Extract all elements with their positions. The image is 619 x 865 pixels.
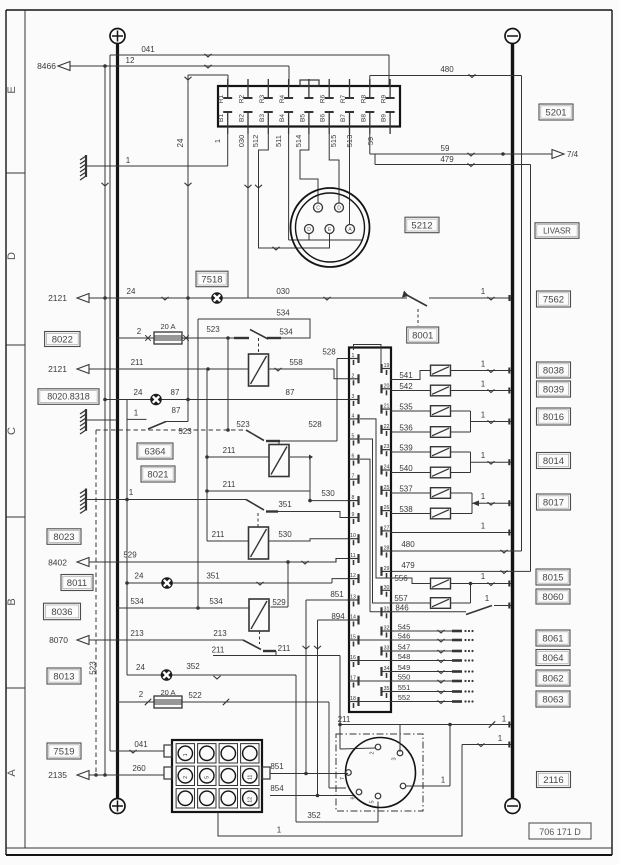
svg-text:211: 211	[223, 446, 236, 455]
svg-text:R6: R6	[320, 94, 327, 103]
svg-text:213: 213	[130, 629, 144, 638]
svg-text:515: 515	[329, 135, 338, 148]
svg-text:8039: 8039	[543, 384, 564, 395]
svg-text:1: 1	[183, 753, 189, 756]
svg-text:1: 1	[126, 156, 131, 165]
svg-text:7518: 7518	[201, 274, 222, 285]
svg-text:511: 511	[274, 135, 283, 147]
svg-text:541: 541	[399, 371, 413, 380]
svg-text:523: 523	[89, 661, 98, 675]
svg-text:1: 1	[481, 287, 486, 296]
svg-text:B2: B2	[239, 114, 246, 122]
svg-text:2: 2	[137, 327, 142, 336]
svg-text:8014: 8014	[543, 456, 564, 467]
svg-text:R4: R4	[279, 94, 286, 103]
svg-text:479: 479	[401, 561, 415, 570]
svg-text:211: 211	[212, 646, 225, 655]
svg-text:535: 535	[399, 403, 413, 412]
svg-text:854: 854	[270, 784, 284, 793]
svg-text:1: 1	[481, 522, 486, 531]
svg-text:6: 6	[351, 796, 357, 799]
svg-text:030: 030	[276, 287, 290, 296]
svg-text:538: 538	[399, 505, 413, 514]
svg-text:5: 5	[370, 800, 376, 803]
svg-text:041: 041	[141, 45, 155, 54]
svg-text:13: 13	[350, 595, 356, 601]
svg-text:706 171 D: 706 171 D	[539, 827, 581, 837]
svg-text:534: 534	[209, 597, 223, 606]
svg-text:041: 041	[134, 740, 148, 749]
svg-text:1: 1	[481, 451, 486, 460]
svg-text:8011: 8011	[67, 578, 87, 589]
svg-text:8063: 8063	[542, 694, 563, 705]
svg-text:17: 17	[350, 676, 356, 682]
svg-text:479: 479	[440, 155, 454, 164]
svg-text:523: 523	[206, 325, 220, 334]
svg-text:LIVASR: LIVASR	[543, 226, 571, 235]
svg-text:8022: 8022	[52, 334, 73, 345]
svg-text:1: 1	[134, 409, 139, 418]
svg-text:B: B	[6, 598, 18, 605]
svg-text:1: 1	[441, 776, 446, 785]
svg-text:211: 211	[223, 480, 236, 489]
svg-text:542: 542	[399, 382, 413, 391]
svg-text:846: 846	[395, 604, 409, 613]
svg-text:B8: B8	[360, 114, 367, 122]
svg-text:545: 545	[398, 623, 411, 632]
svg-text:8060: 8060	[542, 592, 563, 603]
svg-text:8017: 8017	[543, 497, 564, 508]
svg-text:8020.8318: 8020.8318	[47, 392, 90, 402]
svg-text:528: 528	[322, 348, 336, 357]
svg-text:537: 537	[399, 485, 413, 494]
svg-text:87: 87	[286, 388, 295, 397]
svg-text:R8: R8	[360, 94, 367, 103]
svg-text:1: 1	[129, 488, 134, 497]
svg-text:529: 529	[272, 598, 286, 607]
svg-text:211: 211	[278, 644, 291, 653]
svg-text:3: 3	[392, 757, 398, 760]
svg-text:2: 2	[139, 690, 144, 699]
svg-text:R9: R9	[381, 94, 388, 103]
svg-text:512: 512	[251, 135, 260, 148]
svg-text:8070: 8070	[49, 635, 68, 645]
svg-text:522: 522	[188, 691, 202, 700]
svg-text:11: 11	[350, 553, 355, 559]
svg-text:351: 351	[278, 500, 292, 509]
svg-text:15: 15	[350, 635, 356, 641]
svg-text:29: 29	[384, 566, 390, 572]
svg-text:534: 534	[130, 597, 144, 606]
svg-text:23: 23	[384, 444, 390, 450]
svg-text:547: 547	[398, 643, 411, 652]
svg-text:B4: B4	[279, 114, 286, 122]
svg-text:10: 10	[350, 533, 356, 539]
svg-text:480: 480	[401, 540, 415, 549]
svg-text:20: 20	[384, 383, 390, 389]
svg-text:530: 530	[278, 530, 292, 539]
svg-text:A: A	[6, 769, 18, 777]
svg-text:2121: 2121	[48, 364, 67, 374]
svg-text:20 A: 20 A	[160, 688, 175, 697]
svg-text:7519: 7519	[53, 746, 74, 757]
svg-text:7: 7	[352, 474, 355, 480]
svg-text:25: 25	[384, 485, 390, 491]
svg-text:8036: 8036	[51, 607, 72, 618]
svg-text:R7: R7	[340, 94, 347, 103]
svg-text:351: 351	[206, 572, 220, 581]
svg-text:1: 1	[502, 715, 507, 724]
svg-text:548: 548	[398, 652, 411, 661]
svg-text:8013: 8013	[53, 671, 74, 682]
svg-text:352: 352	[186, 662, 200, 671]
svg-text:24: 24	[384, 465, 390, 471]
svg-text:7: 7	[340, 777, 346, 780]
svg-text:8061: 8061	[542, 633, 563, 644]
svg-text:59: 59	[441, 144, 450, 153]
svg-text:20 A: 20 A	[160, 322, 175, 331]
svg-text:8: 8	[352, 495, 355, 501]
svg-text:B1: B1	[218, 114, 225, 122]
svg-text:894: 894	[331, 612, 345, 621]
svg-text:R3: R3	[259, 94, 266, 103]
svg-text:030: 030	[237, 135, 246, 148]
svg-text:87: 87	[172, 406, 181, 415]
svg-text:5201: 5201	[545, 107, 566, 118]
svg-text:C: C	[6, 427, 18, 435]
svg-text:12: 12	[350, 573, 356, 579]
svg-text:2116: 2116	[543, 775, 563, 786]
svg-text:1: 1	[352, 353, 355, 359]
svg-text:12: 12	[126, 56, 135, 65]
svg-text:35: 35	[384, 686, 390, 692]
svg-text:1: 1	[481, 380, 486, 389]
svg-text:19: 19	[384, 363, 390, 369]
svg-text:1: 1	[481, 492, 486, 501]
svg-text:8402: 8402	[48, 558, 67, 568]
svg-text:352: 352	[307, 811, 321, 820]
svg-text:528: 528	[308, 420, 322, 429]
svg-text:6364: 6364	[144, 446, 165, 457]
svg-text:24: 24	[176, 138, 185, 147]
svg-text:B5: B5	[299, 114, 306, 122]
svg-text:550: 550	[398, 673, 411, 682]
svg-text:2135: 2135	[48, 770, 67, 780]
svg-text:549: 549	[398, 663, 411, 672]
svg-text:28: 28	[384, 546, 390, 552]
svg-text:552: 552	[398, 693, 411, 702]
svg-text:8038: 8038	[543, 365, 564, 376]
svg-text:B6: B6	[320, 114, 327, 122]
svg-text:30: 30	[384, 585, 390, 591]
svg-text:480: 480	[440, 65, 454, 74]
svg-text:D: D	[6, 252, 18, 260]
svg-text:3: 3	[352, 394, 355, 400]
svg-text:6: 6	[352, 454, 355, 460]
svg-text:211: 211	[131, 358, 144, 367]
svg-text:11: 11	[247, 774, 253, 779]
svg-text:8062: 8062	[542, 673, 563, 684]
svg-text:87: 87	[171, 388, 180, 397]
svg-text:211: 211	[212, 530, 225, 539]
svg-text:22: 22	[384, 424, 390, 430]
svg-text:R1: R1	[218, 94, 225, 103]
svg-text:2121: 2121	[48, 293, 67, 303]
svg-text:534: 534	[279, 328, 293, 337]
svg-text:24: 24	[127, 287, 136, 296]
svg-text:523: 523	[178, 427, 192, 436]
svg-text:539: 539	[399, 444, 413, 453]
svg-text:7/4: 7/4	[567, 150, 579, 159]
svg-text:D: D	[307, 227, 311, 233]
svg-text:34: 34	[384, 666, 390, 672]
svg-text:R2: R2	[239, 94, 246, 103]
svg-text:33: 33	[384, 646, 390, 652]
svg-text:E: E	[6, 86, 18, 93]
svg-text:B9: B9	[381, 114, 388, 122]
svg-text:16: 16	[350, 655, 356, 661]
svg-text:523: 523	[236, 420, 250, 429]
svg-text:8023: 8023	[53, 532, 74, 543]
svg-text:24: 24	[134, 388, 143, 397]
svg-text:529: 529	[123, 551, 137, 560]
svg-text:8466: 8466	[37, 61, 56, 71]
svg-text:D: D	[337, 205, 341, 211]
svg-text:534: 534	[276, 309, 290, 318]
svg-text:5212: 5212	[411, 220, 432, 231]
svg-text:8015: 8015	[542, 572, 563, 583]
svg-text:4: 4	[352, 413, 355, 419]
svg-text:557: 557	[394, 594, 408, 603]
svg-text:8064: 8064	[542, 653, 563, 664]
svg-text:2: 2	[352, 373, 355, 379]
svg-text:211: 211	[338, 715, 351, 724]
svg-text:C: C	[316, 205, 320, 211]
svg-text:1: 1	[481, 360, 486, 369]
svg-text:27: 27	[384, 525, 390, 531]
svg-text:21: 21	[384, 404, 390, 410]
svg-text:18: 18	[350, 696, 356, 702]
svg-text:1: 1	[213, 139, 222, 143]
svg-text:1: 1	[498, 734, 503, 743]
svg-text:8016: 8016	[543, 412, 564, 423]
svg-text:24: 24	[135, 572, 144, 581]
svg-text:540: 540	[399, 464, 413, 473]
svg-text:530: 530	[321, 489, 335, 498]
svg-text:558: 558	[289, 358, 303, 367]
svg-text:1: 1	[481, 572, 486, 581]
svg-text:8021: 8021	[147, 469, 168, 480]
svg-text:14: 14	[350, 615, 356, 621]
svg-text:1: 1	[481, 411, 486, 420]
svg-text:9: 9	[352, 512, 355, 518]
svg-text:24: 24	[136, 663, 145, 672]
svg-text:2: 2	[183, 776, 189, 779]
svg-text:59: 59	[366, 137, 375, 145]
svg-text:1: 1	[485, 594, 490, 603]
svg-text:8001: 8001	[412, 330, 433, 341]
svg-text:26: 26	[384, 505, 390, 511]
svg-text:536: 536	[399, 424, 413, 433]
svg-text:32: 32	[384, 626, 390, 632]
svg-text:2: 2	[370, 751, 376, 754]
svg-text:213: 213	[213, 629, 227, 638]
svg-text:12: 12	[247, 797, 253, 803]
svg-text:556: 556	[394, 574, 408, 583]
svg-text:1: 1	[277, 826, 282, 835]
svg-text:260: 260	[132, 764, 146, 773]
svg-text:7562: 7562	[543, 294, 564, 305]
svg-text:514: 514	[294, 135, 303, 148]
svg-text:546: 546	[398, 632, 411, 641]
svg-text:851: 851	[270, 762, 284, 771]
svg-text:B3: B3	[259, 114, 266, 122]
svg-text:851: 851	[330, 590, 344, 599]
svg-text:B7: B7	[340, 114, 347, 122]
svg-text:5: 5	[352, 434, 355, 440]
svg-text:5: 5	[204, 776, 210, 779]
svg-text:551: 551	[398, 683, 411, 692]
